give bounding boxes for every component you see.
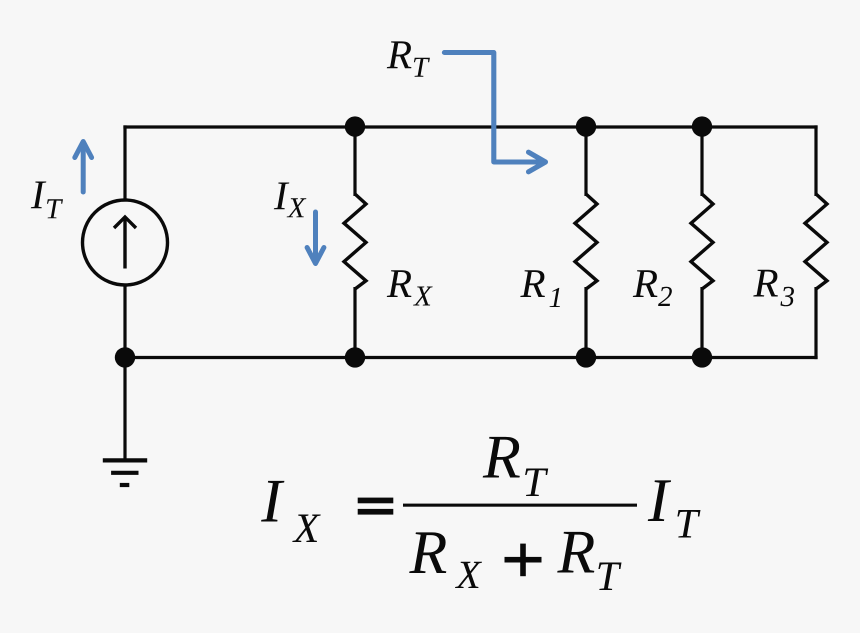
current source arrow head: [114, 217, 136, 228]
node dot top R2: [692, 116, 712, 136]
label RT: [387, 41, 430, 76]
resistor R3: [805, 194, 827, 289]
node dot bottom RX: [345, 347, 365, 367]
label IX: [274, 183, 307, 218]
formula fraction bar: [403, 504, 637, 507]
wire R1 top stub: [584, 127, 587, 196]
wire left vertical upper (source to top): [123, 125, 126, 200]
label R1: [520, 270, 560, 307]
formula denominator plus sign: [505, 557, 542, 563]
resistor R1: [575, 194, 597, 289]
wire top horizontal: [123, 125, 817, 128]
resistor RX: [344, 194, 366, 289]
wire left vertical lower (source to bottom): [123, 285, 126, 359]
wire R1 bottom stub: [584, 287, 587, 358]
current source arrow shaft: [123, 218, 126, 269]
resistor R2: [691, 194, 713, 289]
formula IX: [261, 481, 321, 542]
wire R2 top stub: [700, 127, 703, 196]
formula equals sign: [358, 498, 394, 504]
label RX: [387, 270, 433, 305]
formula IT: [648, 480, 701, 537]
label R3: [753, 270, 794, 307]
node dot top RX: [345, 116, 365, 136]
wire RX bottom stub: [353, 287, 356, 358]
wire R3 bottom stub: [814, 287, 817, 359]
ground: [103, 460, 147, 485]
wire bottom horizontal: [123, 356, 817, 359]
wire R3 top stub: [814, 125, 817, 196]
formula denominator RX: [409, 532, 482, 588]
arrow RT pointer (blue bent): [444, 53, 545, 172]
current source I1 circle: [83, 200, 168, 285]
node dot bottom R2: [692, 347, 712, 367]
arrow IT (blue up): [75, 142, 92, 193]
wire RX top stub: [353, 127, 356, 196]
formula numerator RT: [483, 437, 549, 496]
formula IX = RT/(RX+RT) IT: [261, 437, 700, 590]
arrow IX (blue down): [307, 212, 324, 264]
wire ground stem: [123, 356, 126, 459]
label R2: [633, 270, 672, 306]
label IT: [31, 182, 63, 219]
node dot top R1: [576, 116, 596, 136]
node dot bottom left: [115, 347, 135, 367]
wire R2 bottom stub: [700, 287, 703, 358]
formula denominator RT: [557, 532, 621, 590]
node dot bottom R1: [576, 347, 596, 367]
